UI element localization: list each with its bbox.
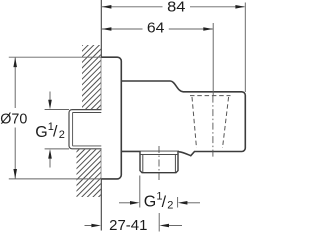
body outline [121, 81, 245, 156]
svg-text:/: / [53, 123, 58, 140]
G1/2 bottom extension lines [139, 176, 141, 208]
svg-text:Ø70: Ø70 [0, 111, 27, 127]
dim O70 line [14, 58, 16, 108]
inlet boss G1/2 [69, 110, 102, 149]
dim 84 extension line right [244, 3, 246, 93]
dim O70 extension top [9, 56, 101, 58]
cone centerline [212, 96, 214, 157]
dim 84 line [102, 6, 163, 8]
svg-text:/: / [162, 194, 167, 211]
outlet nipple G1/2 [140, 152, 178, 173]
G1/2 left pointer bottom [49, 155, 51, 168]
nipple centerline [158, 146, 160, 181]
svg-text:2: 2 [59, 129, 65, 141]
hidden cone left edge [192, 97, 197, 148]
svg-text:G: G [144, 194, 156, 211]
svg-text:G: G [35, 124, 47, 141]
wall face line [100, 0, 102, 231]
dim 64 line [102, 28, 143, 30]
boss thread lines [73, 112, 102, 114]
svg-text:84: 84 [167, 0, 185, 16]
hidden cone top [190, 95, 231, 97]
dim 27-41 arrows [85, 225, 93, 227]
dim O70 extension bottom [9, 178, 101, 180]
escutcheon plate [101, 57, 121, 179]
svg-text:27-41: 27-41 [109, 218, 147, 233]
G1/2 bottom arrows [119, 202, 130, 204]
svg-text:64: 64 [147, 21, 165, 37]
svg-text:2: 2 [167, 200, 173, 212]
dim 64 extension line [212, 23, 214, 96]
hidden cone right edge [223, 97, 229, 148]
dim 27-41 extension right [158, 213, 160, 232]
G1/2 left pointer top [49, 92, 51, 105]
wall hatching [72, 18, 104, 224]
body bottom edge near plate [121, 150, 179, 152]
